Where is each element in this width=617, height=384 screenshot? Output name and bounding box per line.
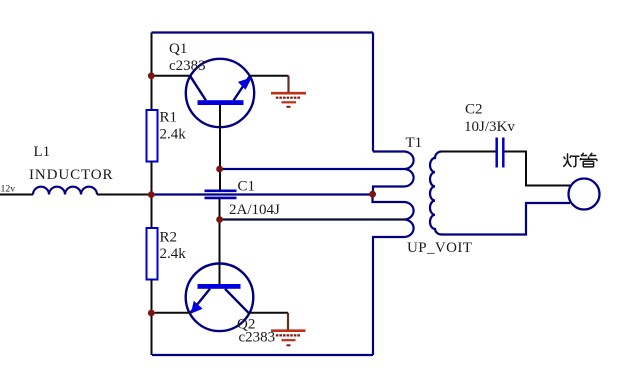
- svg-text:R1: R1: [160, 110, 178, 126]
- wire 12v input to L1: [0, 194, 33, 196]
- wire Q2 collector to ground: [249, 312, 289, 314]
- wire center rail (L1 junction to T1 center tap, through C1 gap): [151, 193, 373, 195]
- wire T1 secondary bottom to lamp bottom terminal: [442, 203, 571, 235]
- svg-text:2A/104J: 2A/104J: [229, 202, 280, 218]
- svg-text:Q1: Q1: [169, 41, 187, 57]
- transformer T1 primary lower half: [373, 194, 473, 355]
- wire left rail vertical (top loop corner to R1): [151, 33, 153, 111]
- svg-text:12v: 12v: [1, 184, 16, 195]
- resistor R1: [147, 110, 187, 162]
- wire feedback tap upper (Q1 base to T1): [220, 168, 405, 170]
- node 12v supply label: [1, 184, 16, 195]
- wire C2 to lamp top terminal: [505, 152, 571, 186]
- label 灯管 (lamp tube): [563, 153, 597, 167]
- junction dot (Q1 base / upper tap): [216, 166, 223, 173]
- svg-text:2.4k: 2.4k: [160, 127, 187, 143]
- wire right rail top (to transformer primary top): [372, 33, 374, 152]
- wire T1 secondary top to C2: [442, 151, 496, 153]
- svg-text:UP_VOIT: UP_VOIT: [407, 240, 472, 256]
- svg-text:C1: C1: [238, 179, 256, 195]
- wire R1 bottom to R2 top through middle junction: [151, 162, 153, 229]
- svg-text:2.4k: 2.4k: [160, 246, 187, 262]
- junction dot (left rail / Q1 collector): [148, 72, 155, 79]
- transistor Q1: [169, 41, 254, 127]
- wire top rail of loop: [152, 31, 374, 33]
- resistor R2: [147, 228, 187, 280]
- svg-text:10J/3Kv: 10J/3Kv: [464, 119, 515, 135]
- wire feedback tap lower (Q2 base to T1): [220, 218, 405, 220]
- junction dot (T1 center tap): [369, 191, 376, 198]
- svg-text:R2: R2: [160, 230, 178, 246]
- ground (Q1 emitter): [271, 76, 306, 107]
- svg-text:C2: C2: [465, 102, 483, 118]
- svg-text:c2383: c2383: [169, 58, 206, 74]
- capacitor C2: [464, 102, 515, 168]
- junction dot (L1 / R1 / R2 / center rail): [148, 191, 155, 198]
- wire bottom rail of loop: [152, 354, 373, 356]
- wire Q1 emitter to ground: [250, 75, 289, 77]
- wire C1 bottom to Q2 base: [219, 199, 221, 284]
- transformer T1 primary upper half: [373, 135, 422, 194]
- transistor Q2: [186, 264, 275, 346]
- wire L1 to left rail junction: [97, 194, 151, 196]
- transformer T1 secondary winding: [430, 152, 442, 235]
- wire Q2 emitter to left rail junction: [151, 312, 191, 314]
- svg-text:INDUCTOR: INDUCTOR: [29, 167, 113, 183]
- wire R2 bottom to bottom loop corner: [151, 280, 153, 356]
- svg-text:T1: T1: [406, 135, 423, 151]
- capacitor C1: [205, 179, 281, 219]
- ground (Q2 side): [271, 313, 306, 346]
- junction dot (Q2 base / lower tap): [216, 216, 223, 223]
- junction dot (left rail / Q2 emitter): [148, 310, 155, 317]
- wire Q1 collector to left rail junction: [151, 75, 190, 77]
- inductor L1: [29, 144, 113, 195]
- svg-text:c2383: c2383: [239, 330, 276, 346]
- svg-text:L1: L1: [34, 144, 51, 160]
- wire Q1 base vertical to C1: [219, 105, 221, 190]
- lamp 灯管: [569, 179, 600, 210]
